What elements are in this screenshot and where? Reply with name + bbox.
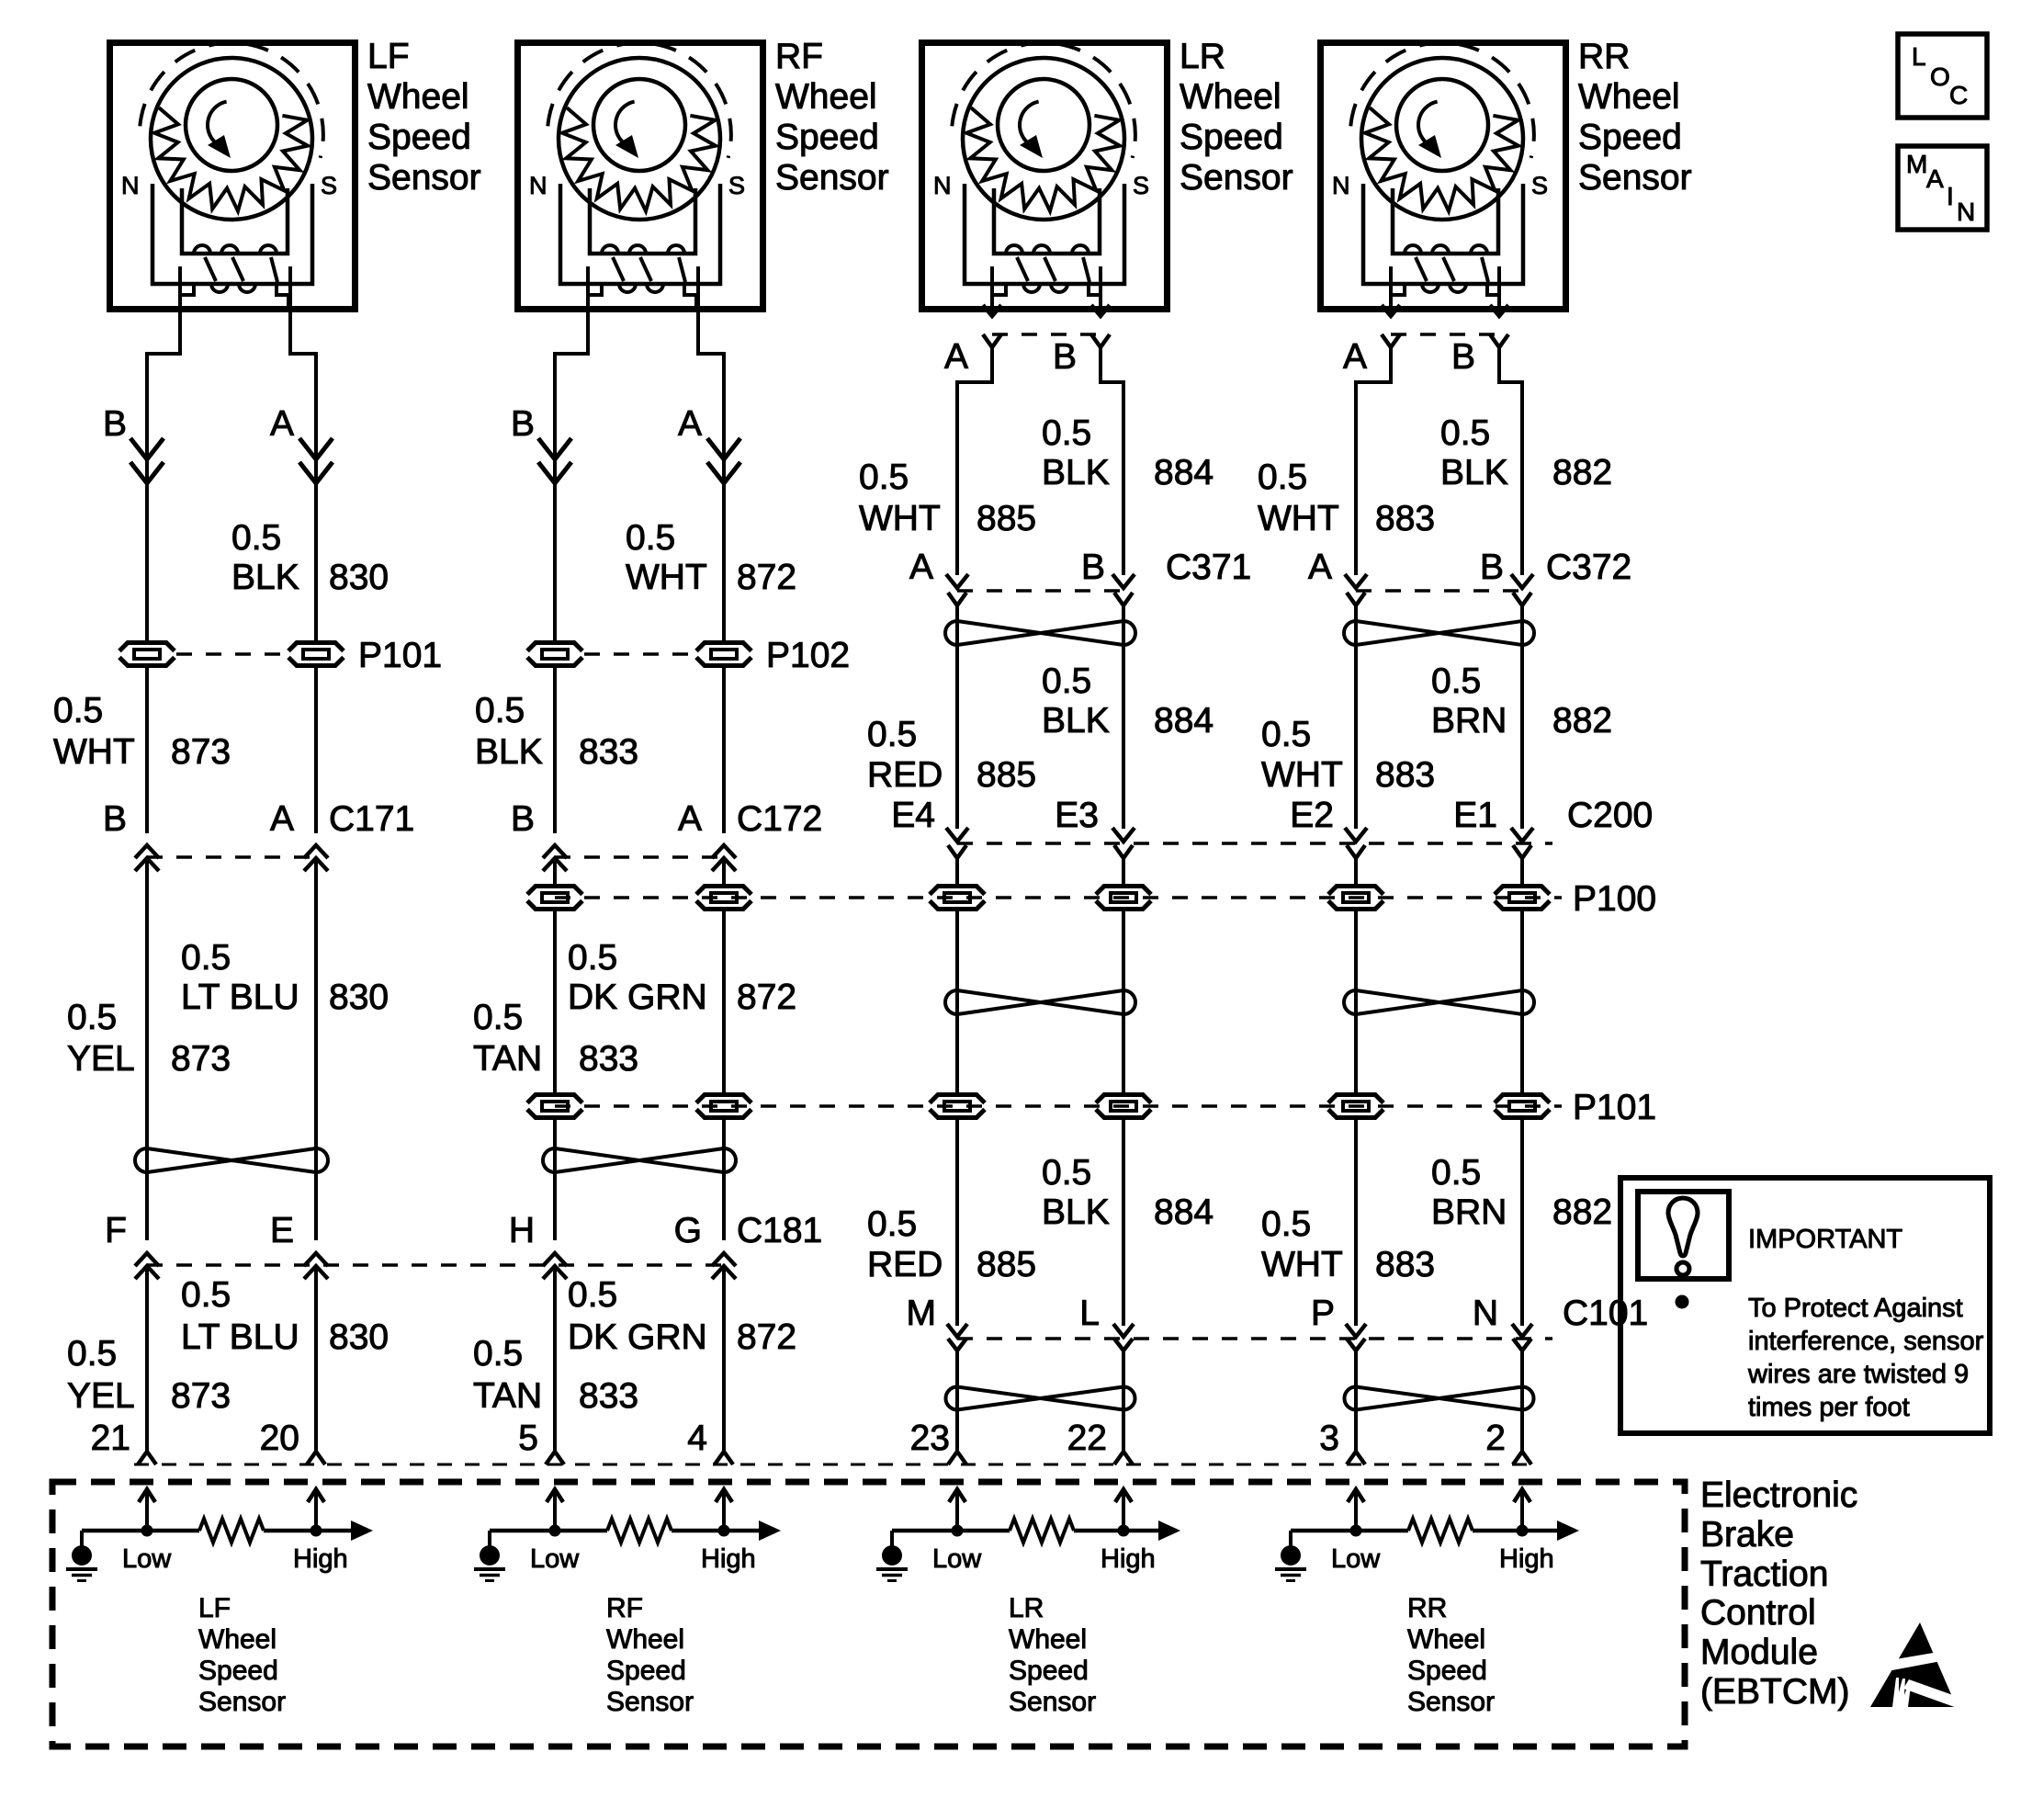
High output arrow RR — [1557, 1520, 1579, 1541]
svg-text:0.5: 0.5 — [1258, 458, 1307, 497]
svg-text:YEL: YEL — [67, 1039, 135, 1079]
twisted pair LF — [135, 1148, 328, 1172]
svg-text:BLK: BLK — [1440, 453, 1508, 492]
svg-text:885: 885 — [976, 1245, 1036, 1284]
svg-text:LF: LF — [198, 1593, 231, 1623]
wire LF right (C171 to C181) — [314, 858, 318, 1240]
svg-text:A: A — [944, 337, 968, 377]
pin fork 3 — [1347, 1452, 1365, 1464]
twisted pair RR middle — [1344, 990, 1534, 1014]
svg-text:873: 873 — [171, 1039, 231, 1079]
sensor connector forks (LR) — [983, 334, 1110, 347]
RR wheel speed sensor — [1321, 43, 1566, 310]
svg-text:B: B — [1081, 548, 1105, 587]
svg-text:Control: Control — [1700, 1593, 1816, 1633]
svg-text:L: L — [1912, 42, 1926, 71]
label LR Wheel Speed Sensor (EBTCM) — [1009, 1593, 1096, 1717]
connector C372 — [1345, 574, 1533, 605]
wire label 0.5 RED 885 (LR left mid) — [867, 715, 1036, 795]
wire RF left (sensor to C172) — [555, 266, 588, 833]
svg-text:Wheel: Wheel — [775, 77, 877, 117]
connector C181 pin labels F E — [105, 1211, 294, 1250]
svg-text:833: 833 — [579, 1039, 638, 1079]
svg-text:WHT: WHT — [1258, 499, 1339, 538]
EBTCM circuit line LF — [82, 1529, 353, 1533]
terminal label A (LF) — [270, 404, 294, 444]
connector C371 labels — [909, 548, 1251, 587]
svg-text:E2: E2 — [1290, 796, 1334, 835]
connector C171 — [135, 845, 328, 871]
svg-text:E3: E3 — [1055, 796, 1099, 835]
label RF Wheel Speed Sensor — [775, 37, 889, 198]
svg-text:A: A — [678, 404, 702, 444]
label High LR — [1101, 1544, 1156, 1574]
pin fork 21 — [138, 1452, 156, 1464]
svg-text:Speed: Speed — [367, 118, 471, 157]
terminal label A (LR) — [944, 337, 968, 377]
svg-text:BLK: BLK — [1042, 701, 1110, 740]
terminal label B (LR) — [1053, 337, 1077, 377]
svg-text:P100: P100 — [1573, 879, 1656, 919]
svg-text:I: I — [1947, 182, 1954, 210]
connector C200 dashed line — [957, 842, 1552, 845]
svg-text:LR: LR — [1009, 1593, 1044, 1623]
svg-text:872: 872 — [737, 978, 796, 1017]
wire label 0.5 BLK 884 (LR right mid) — [1042, 661, 1214, 740]
svg-text:G: G — [674, 1211, 702, 1250]
junction dots RF — [549, 1525, 730, 1537]
connector C181 label — [737, 1211, 822, 1250]
svg-text:BLK: BLK — [475, 732, 543, 772]
svg-text:Speed: Speed — [1578, 118, 1682, 157]
svg-text:TAN: TAN — [473, 1039, 542, 1079]
wire RF right (C172 to C181) — [722, 858, 726, 1240]
svg-text:Traction: Traction — [1700, 1554, 1828, 1594]
ground LR — [876, 1531, 908, 1581]
label IMPORTANT — [1748, 1225, 1902, 1254]
svg-text:Sensor: Sensor — [1180, 158, 1293, 198]
svg-text:DK GRN: DK GRN — [568, 978, 707, 1017]
wire RR right (C200 to C101) — [1520, 858, 1524, 1326]
wire label 0.5 WHT 872 (RF right) — [626, 518, 796, 597]
pin fork 2 — [1513, 1452, 1531, 1464]
sensor connector arrows (RR) — [1382, 266, 1508, 316]
connector P100 (RF pair) — [525, 884, 753, 911]
wire label 0.5 TAN 833 (RF left mid) — [473, 998, 638, 1079]
wire label 0.5 BLK 833 (RF left) — [475, 691, 638, 772]
svg-text:5: 5 — [518, 1419, 538, 1458]
svg-text:883: 883 — [1375, 755, 1435, 795]
svg-text:DK GRN: DK GRN — [568, 1317, 707, 1357]
svg-text:IMPORTANT: IMPORTANT — [1748, 1225, 1902, 1254]
LF wheel speed sensor — [110, 43, 356, 310]
label High RF — [701, 1544, 756, 1574]
svg-text:Module: Module — [1700, 1633, 1818, 1672]
pin number 2 — [1485, 1419, 1506, 1458]
svg-text:0.5: 0.5 — [473, 1334, 523, 1373]
LR wheel speed sensor — [922, 43, 1168, 310]
svg-text:High: High — [293, 1544, 348, 1574]
svg-text:F: F — [105, 1211, 127, 1250]
svg-text:Wheel: Wheel — [367, 77, 469, 117]
sensor connector arrows (LR) — [983, 266, 1110, 316]
svg-text:Speed: Speed — [606, 1656, 686, 1686]
exclamation icon box — [1638, 1192, 1729, 1279]
pin number 23 — [910, 1419, 950, 1458]
connector P101 lower (RF pair) — [525, 1092, 753, 1120]
connector C200 pin labels E4 E3 — [891, 796, 1099, 835]
label LF Wheel Speed Sensor (EBTCM) — [198, 1593, 286, 1717]
pin number 20 — [260, 1419, 299, 1458]
resistor LR — [1010, 1519, 1074, 1543]
svg-text:C200: C200 — [1567, 796, 1653, 835]
svg-text:C371: C371 — [1166, 548, 1251, 587]
svg-text:High: High — [701, 1544, 756, 1574]
wire LR right (C101 to EBTCM) — [1122, 1351, 1125, 1452]
svg-text:High: High — [1499, 1544, 1554, 1574]
label LR Wheel Speed Sensor — [1180, 37, 1293, 198]
svg-text:WHT: WHT — [859, 499, 941, 538]
terminal label B (RR) — [1451, 337, 1475, 377]
svg-text:LF: LF — [367, 37, 410, 76]
ESD sensitive device symbol — [1863, 1622, 1966, 1709]
resistor LF — [199, 1519, 264, 1543]
svg-text:C181: C181 — [737, 1211, 822, 1250]
wire label 0.5 TAN 833 (RF left lower) — [473, 1334, 638, 1416]
svg-text:882: 882 — [1552, 701, 1612, 740]
svg-text:High: High — [1101, 1544, 1156, 1574]
connector C200 chevrons (RR) — [1345, 828, 1533, 858]
connector C372 labels — [1308, 548, 1631, 587]
svg-text:B: B — [1480, 548, 1504, 587]
wire LR right (C200 to C101) — [1122, 858, 1125, 1326]
connector C200 label — [1567, 796, 1653, 835]
svg-text:833: 833 — [579, 1376, 638, 1416]
pin fork 23 — [948, 1452, 966, 1464]
svg-text:O: O — [1930, 62, 1950, 91]
ground LF — [66, 1531, 97, 1581]
connector C200 chevrons (LR) — [946, 828, 1135, 858]
svg-text:E4: E4 — [891, 796, 935, 835]
connector P101 lower dashed line — [555, 1104, 1562, 1108]
svg-text:Sensor: Sensor — [1578, 158, 1692, 198]
svg-text:BRN: BRN — [1431, 701, 1507, 740]
pin number 4 — [687, 1419, 707, 1458]
svg-text:0.5: 0.5 — [1261, 715, 1311, 754]
svg-text:A: A — [909, 548, 933, 587]
wire label 0.5 RED 885 (LR left lower) — [867, 1204, 1036, 1284]
wire RF right (C181 to EBTCM) — [722, 1266, 726, 1452]
connector P101 lower label — [1573, 1088, 1656, 1127]
svg-text:H: H — [509, 1211, 535, 1250]
connector P101 lower (RR pair) — [1326, 1092, 1552, 1120]
connector C181 pin labels H G — [509, 1211, 702, 1250]
svg-text:interference, sensor: interference, sensor — [1748, 1327, 1984, 1356]
svg-text:Speed: Speed — [1180, 118, 1283, 157]
wire label 0.5 YEL 873 (LF left mid) — [67, 998, 231, 1079]
svg-text:Wheel: Wheel — [606, 1624, 684, 1655]
svg-text:RR: RR — [1407, 1593, 1447, 1623]
junction dots RR — [1350, 1525, 1529, 1537]
svg-text:B: B — [103, 799, 127, 839]
svg-text:L: L — [1079, 1294, 1100, 1333]
wire LR right (C371 to C200) — [1122, 605, 1125, 829]
svg-text:P101: P101 — [358, 636, 442, 675]
sensor connector forks (RR) — [1382, 334, 1508, 347]
wire label 0.5 BLK 830 (LF right) — [231, 518, 389, 597]
svg-text:A: A — [270, 799, 294, 839]
svg-text:B: B — [1451, 337, 1475, 377]
junction dots LF — [141, 1525, 322, 1537]
svg-text:Speed: Speed — [775, 118, 879, 157]
svg-text:BLK: BLK — [1042, 453, 1110, 492]
wire LR right (sensor to C371) — [1101, 347, 1123, 575]
svg-text:Low: Low — [1331, 1544, 1381, 1574]
svg-text:WHT: WHT — [626, 558, 707, 597]
connector C101 chevrons (LR) — [947, 1324, 1134, 1351]
svg-text:0.5: 0.5 — [1261, 1204, 1311, 1244]
svg-text:Speed: Speed — [198, 1656, 278, 1686]
High output arrow LR — [1158, 1520, 1180, 1541]
pin number 22 — [1067, 1419, 1107, 1458]
wire LF right (C181 to EBTCM) — [314, 1266, 318, 1452]
connector chevrons LF A — [299, 438, 333, 483]
svg-text:0.5: 0.5 — [67, 1334, 117, 1373]
svg-text:A: A — [1343, 337, 1367, 377]
svg-text:TAN: TAN — [473, 1376, 542, 1416]
svg-text:Sensor: Sensor — [1407, 1687, 1495, 1717]
twisted pair RF — [543, 1148, 736, 1172]
svg-text:0.5: 0.5 — [1042, 661, 1091, 701]
svg-text:Speed: Speed — [1009, 1656, 1089, 1686]
wire LF left (C171 to C181) — [145, 858, 149, 1240]
svg-text:RR: RR — [1578, 37, 1630, 76]
label LF Wheel Speed Sensor — [367, 37, 481, 198]
connector P100 label — [1573, 879, 1656, 919]
connector C171 labels — [103, 799, 414, 839]
connector P101 (LF pair) — [118, 636, 442, 675]
connector C172 labels — [511, 799, 822, 839]
svg-text:0.5: 0.5 — [473, 998, 523, 1037]
connector chevrons RF B — [538, 438, 571, 483]
svg-text:0.5: 0.5 — [1431, 1153, 1481, 1193]
svg-text:0.5: 0.5 — [181, 938, 231, 978]
note bullet — [1676, 1295, 1689, 1309]
svg-text:times per foot: times per foot — [1748, 1393, 1910, 1422]
connector C172 — [543, 845, 736, 871]
svg-text:Sensor: Sensor — [606, 1687, 694, 1717]
connector chevrons RF A — [707, 438, 740, 483]
sensor connector dashed line (LR) — [992, 333, 1101, 336]
wire label 0.5 LT BLU 830 (LF right lower) — [181, 1275, 389, 1357]
svg-text:885: 885 — [976, 499, 1036, 538]
svg-text:N: N — [1473, 1294, 1498, 1333]
label High LF — [293, 1544, 348, 1574]
wire label 0.5 WHT 873 (LF left) — [53, 691, 231, 772]
connector P100 dashed line — [555, 896, 1562, 899]
svg-text:B: B — [511, 799, 535, 839]
wire label 0.5 DK GRN 872 (RF right mid) — [568, 938, 796, 1017]
svg-text:884: 884 — [1154, 453, 1214, 492]
connector C101 label — [1563, 1294, 1648, 1333]
label RF Wheel Speed Sensor (EBTCM) — [606, 1593, 694, 1717]
pin number 21 — [91, 1419, 130, 1458]
svg-text:Wheel: Wheel — [1578, 77, 1680, 117]
ground RR — [1275, 1531, 1306, 1581]
connector C200 pin labels E2 E1 — [1290, 796, 1497, 835]
svg-text:883: 883 — [1375, 1245, 1435, 1284]
svg-text:Wheel: Wheel — [1407, 1624, 1485, 1655]
terminal label A (RR) — [1343, 337, 1367, 377]
svg-text:Electronic: Electronic — [1700, 1475, 1857, 1515]
svg-text:RF: RF — [606, 1593, 643, 1623]
wire label 0.5 DK GRN 872 (RF right lower) — [568, 1275, 796, 1357]
svg-text:0.5: 0.5 — [626, 518, 675, 558]
twisted pair LR lower — [946, 1387, 1135, 1410]
svg-text:A: A — [1926, 164, 1944, 193]
wire label 0.5 WHT 885 (LR left) — [859, 458, 1036, 538]
label RR Wheel Speed Sensor — [1578, 37, 1692, 198]
svg-text:E1: E1 — [1453, 796, 1497, 835]
svg-text:P: P — [1311, 1294, 1335, 1333]
EBTCM circuit line LR — [892, 1529, 1160, 1533]
connector C101 dashed line — [957, 1337, 1552, 1340]
svg-text:0.5: 0.5 — [1042, 1153, 1091, 1193]
svg-text:RED: RED — [867, 755, 943, 795]
connector C101 pin labels P N — [1311, 1294, 1498, 1333]
wire RR left (C372 to C200) — [1354, 605, 1358, 829]
wire RR left (C200 to C101) — [1354, 858, 1358, 1326]
svg-text:21: 21 — [91, 1419, 130, 1458]
svg-text:Low: Low — [932, 1544, 982, 1574]
label Electronic Brake Traction Control Module (EBTCM) — [1700, 1475, 1857, 1712]
svg-text:873: 873 — [171, 1376, 231, 1416]
wire RF right (sensor to C172) — [698, 266, 724, 833]
connector P102 (RF pair) — [525, 636, 850, 675]
connector C101 pin labels M L — [907, 1294, 1101, 1333]
wire LF right (sensor to C171) — [290, 266, 316, 833]
svg-text:WHT: WHT — [1261, 755, 1343, 795]
connector C181 chevrons (LF) — [135, 1253, 328, 1279]
svg-text:23: 23 — [910, 1419, 950, 1458]
svg-text:Wheel: Wheel — [1180, 77, 1281, 117]
svg-text:873: 873 — [171, 732, 231, 772]
label Low RR — [1331, 1544, 1381, 1574]
svg-text:A: A — [1308, 548, 1332, 587]
connector P100 (LR pair) — [928, 884, 1153, 911]
svg-text:RF: RF — [775, 37, 823, 76]
connector P101 lower (LR pair) — [928, 1092, 1153, 1120]
svg-text:LT BLU: LT BLU — [181, 1317, 299, 1357]
connector P100 (RR pair) — [1326, 884, 1552, 911]
wire RR right (sensor to C372) — [1499, 347, 1522, 575]
svg-text:0.5: 0.5 — [67, 998, 117, 1037]
svg-text:830: 830 — [329, 1317, 389, 1357]
label High RR — [1499, 1544, 1554, 1574]
svg-text:885: 885 — [976, 755, 1036, 795]
svg-text:872: 872 — [737, 558, 796, 597]
twisted pair LR middle — [945, 990, 1135, 1014]
connector C371 — [946, 574, 1135, 605]
svg-text:B: B — [103, 404, 127, 444]
svg-text:LT BLU: LT BLU — [181, 978, 299, 1017]
svg-text:0.5: 0.5 — [53, 691, 103, 730]
RF wheel speed sensor — [518, 43, 763, 310]
sensor connector dashed line (RR) — [1391, 333, 1499, 336]
wire label 0.5 WHT 883 (RR left mid) — [1261, 715, 1435, 795]
svg-text:To Protect Against: To Protect Against — [1748, 1294, 1963, 1323]
svg-text:Wheel: Wheel — [198, 1624, 277, 1655]
resistor RF — [607, 1519, 672, 1543]
EBTCM input arrows RR — [1348, 1489, 1530, 1531]
resistor RR — [1408, 1519, 1473, 1543]
svg-text:A: A — [678, 799, 702, 839]
svg-text:22: 22 — [1067, 1419, 1107, 1458]
wire RR left (sensor to C372) — [1356, 347, 1391, 575]
svg-text:M: M — [1906, 150, 1927, 178]
svg-text:P102: P102 — [766, 636, 850, 675]
svg-text:(EBTCM): (EBTCM) — [1700, 1672, 1849, 1712]
svg-text:0.5: 0.5 — [867, 1204, 917, 1244]
wire RF left (C181 to EBTCM) — [553, 1266, 557, 1452]
EBTCM input arrows LF — [139, 1489, 324, 1531]
svg-text:882: 882 — [1552, 1193, 1612, 1232]
svg-text:C: C — [1949, 81, 1968, 109]
svg-text:B: B — [1053, 337, 1077, 377]
svg-text:Speed: Speed — [1407, 1656, 1487, 1686]
svg-text:0.5: 0.5 — [867, 715, 917, 754]
note text — [1747, 1294, 1984, 1422]
svg-text:YEL: YEL — [67, 1376, 135, 1416]
svg-text:830: 830 — [329, 558, 389, 597]
label Low RF — [530, 1544, 580, 1574]
exclamation mark icon — [1668, 1198, 1698, 1275]
pin fork 22 — [1114, 1452, 1133, 1464]
pin fork 20 — [307, 1452, 325, 1464]
svg-text:C101: C101 — [1563, 1294, 1648, 1333]
pin fork 4 — [715, 1452, 733, 1464]
junction dots LR — [952, 1525, 1130, 1537]
EBTCM circuit line RF — [490, 1529, 761, 1533]
EBTCM input arrows LR — [949, 1489, 1132, 1531]
svg-text:0.5: 0.5 — [231, 518, 281, 558]
svg-text:Brake: Brake — [1700, 1515, 1794, 1554]
svg-text:Wheel: Wheel — [1009, 1624, 1087, 1655]
svg-text:Low: Low — [122, 1544, 172, 1574]
twisted pair RR lower — [1344, 1387, 1533, 1410]
connector chevrons LF B — [130, 438, 164, 483]
wire label 0.5 BLK 884 (LR right lower) — [1042, 1153, 1214, 1232]
svg-text:A: A — [270, 404, 294, 444]
svg-text:884: 884 — [1154, 701, 1214, 740]
IMPORTANT note box — [1620, 1178, 1990, 1433]
svg-text:0.5: 0.5 — [475, 691, 525, 730]
terminal label A (RF) — [678, 404, 702, 444]
EBTCM module dashed box — [52, 1482, 1685, 1747]
wire LR left (C371 to C200) — [955, 605, 959, 829]
svg-text:BLK: BLK — [231, 558, 299, 597]
pin number 5 — [518, 1419, 538, 1458]
svg-text:0.5: 0.5 — [1042, 413, 1091, 453]
wire LR left (sensor to C371) — [957, 347, 992, 575]
wire label 0.5 BRN 882 (RR right mid) — [1431, 661, 1612, 740]
connector C101 chevrons (RR) — [1346, 1324, 1532, 1351]
MAIN reference box — [1898, 146, 1987, 230]
label Low LR — [932, 1544, 982, 1574]
svg-text:Sensor: Sensor — [367, 158, 481, 198]
svg-text:M: M — [907, 1294, 937, 1333]
svg-text:0.5: 0.5 — [568, 938, 617, 978]
